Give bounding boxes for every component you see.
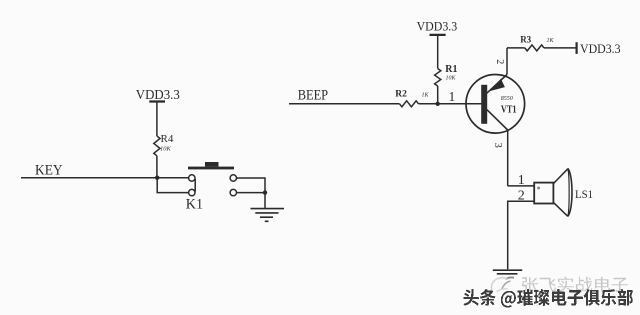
svg-text:10K: 10K xyxy=(446,76,457,82)
svg-text:1: 1 xyxy=(518,173,525,188)
svg-text:R1: R1 xyxy=(445,64,457,75)
wire BEEP to R2 xyxy=(289,103,400,105)
wire VDD3.3 to R4 xyxy=(156,102,158,137)
resistor R3 xyxy=(520,34,554,51)
wire KEY horizontal xyxy=(21,177,189,179)
node junction (KEY/R4/K1) xyxy=(155,176,159,180)
resistor R1 xyxy=(435,64,458,86)
svg-text:R4: R4 xyxy=(161,133,174,145)
node junction (R1/R2/base) xyxy=(436,102,440,106)
wire R2 to base node xyxy=(419,103,482,105)
wire collector down xyxy=(507,130,509,186)
svg-text:8550: 8550 xyxy=(501,96,513,102)
wire node down to switch lower pin xyxy=(157,178,188,193)
power symbol VDD3.3 (top) xyxy=(417,19,458,35)
power symbol VDD3.3 (left) xyxy=(136,87,180,102)
svg-text:2: 2 xyxy=(494,59,505,64)
svg-text:1K: 1K xyxy=(547,38,555,44)
wire R3 to VDD3.3 terminal xyxy=(544,47,577,49)
wire emitter to R3 xyxy=(507,47,525,49)
node junction (K1/ground) xyxy=(263,190,267,194)
svg-text:VT1: VT1 xyxy=(501,105,517,116)
wire collector to speaker pin 1 xyxy=(508,185,535,187)
svg-text:KEY: KEY xyxy=(35,163,63,179)
wire emitter up xyxy=(506,48,508,75)
wire speaker pin 2 xyxy=(508,201,535,269)
wire VDD3.3 to R1 xyxy=(437,35,439,69)
svg-text:BEEP: BEEP xyxy=(298,88,328,104)
ground (left) xyxy=(251,209,285,222)
watermark text 张飞实战电子 xyxy=(522,277,628,292)
svg-text:3: 3 xyxy=(492,143,503,148)
wire switch to ground xyxy=(264,193,266,208)
svg-text:R3: R3 xyxy=(520,34,531,44)
transistor VT1 (PNP 8550) xyxy=(466,75,525,134)
switch K1 xyxy=(186,162,265,212)
svg-text:K1: K1 xyxy=(186,196,203,212)
svg-text:1K: 1K xyxy=(422,93,430,99)
svg-text:1: 1 xyxy=(449,89,456,104)
svg-text:R2: R2 xyxy=(395,90,407,100)
resistor R4 xyxy=(154,133,174,156)
svg-text:VDD3.3: VDD3.3 xyxy=(136,87,180,102)
resistor R2 xyxy=(395,90,429,107)
wire R1 to base node xyxy=(437,86,439,104)
watermark logo scribble xyxy=(491,277,514,291)
svg-text:VDD3.3: VDD3.3 xyxy=(417,19,458,34)
wire R4 to KEY node xyxy=(156,156,158,178)
svg-text:10K: 10K xyxy=(160,146,172,153)
ground (right) xyxy=(493,270,522,274)
caption 头条@璀璨电子俱乐部 xyxy=(464,289,634,308)
power terminal VDD3.3 (right) xyxy=(577,41,621,56)
svg-text:VDD3.3: VDD3.3 xyxy=(580,41,621,56)
svg-text:2: 2 xyxy=(518,188,525,203)
svg-text:LS1: LS1 xyxy=(575,187,593,201)
speaker LS1 xyxy=(534,168,593,216)
